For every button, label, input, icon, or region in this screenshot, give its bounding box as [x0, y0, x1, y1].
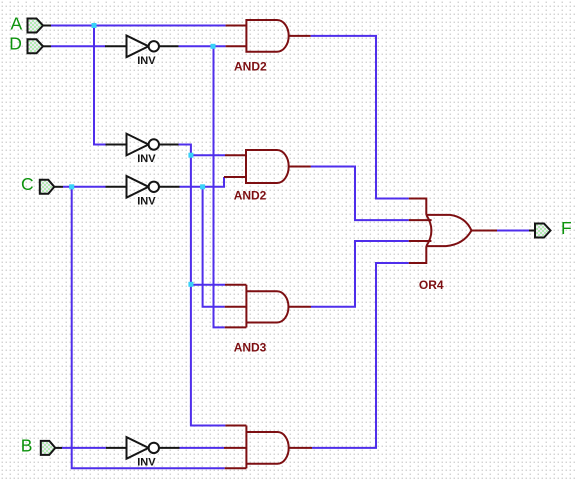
wire not-A branch to AND2 U2	[191, 154, 225, 156]
wire OR4 output to port F	[497, 230, 529, 232]
inverter INV3	[106, 176, 180, 207]
input port A	[11, 13, 52, 33]
wire not-D vertical to AND3	[214, 46, 225, 327]
or-gate OR4	[409, 199, 497, 292]
inverter INV1	[105, 36, 179, 67]
svg-text:AND2: AND2	[234, 60, 267, 74]
wire AND3 output to OR4	[311, 241, 409, 307]
svg-text:INV: INV	[137, 195, 156, 207]
node junction not-A 1	[188, 153, 193, 158]
wire not-C vertical to AND3	[203, 187, 225, 307]
svg-text:B: B	[21, 436, 33, 456]
input port D	[9, 34, 51, 54]
node junction C	[69, 184, 74, 189]
wire AND2 U2 output to OR4	[311, 167, 409, 221]
input port B wire to INV4	[62, 447, 106, 449]
wire net C vertical to AND3b	[72, 187, 225, 469]
inverter INV4	[106, 437, 180, 468]
svg-text:C: C	[21, 174, 34, 194]
wire INV4 output to AND3b	[180, 447, 225, 449]
wire INV3 output to AND2 U2	[180, 177, 225, 187]
node junction A	[92, 23, 97, 28]
inverter INV2	[106, 134, 179, 165]
svg-text:INV: INV	[137, 153, 156, 165]
wire net D from port to INV1	[51, 45, 106, 47]
svg-text:AND3: AND3	[234, 341, 267, 355]
and-gate AND2 U1	[226, 20, 311, 74]
svg-text:A: A	[11, 13, 23, 33]
input port B	[21, 436, 62, 456]
and-gate AND3	[225, 285, 311, 355]
wire net A horizontal	[51, 25, 226, 27]
output port F	[529, 218, 572, 238]
svg-text:AND2: AND2	[234, 188, 267, 202]
svg-text:F: F	[561, 218, 572, 238]
wire net C horizontal	[63, 186, 106, 188]
svg-text:INV: INV	[137, 456, 156, 468]
wire INV2 output vertical	[179, 145, 226, 426]
svg-text:OR4: OR4	[419, 278, 444, 292]
node junction not-C	[200, 184, 205, 189]
node junction not-A 2	[188, 282, 193, 287]
wire AND3b output to OR4	[312, 263, 409, 448]
and-gate AND3b bottom	[224, 426, 312, 469]
wire INV1 output to AND2 U1	[179, 45, 226, 47]
and-gate AND2 U2	[224, 150, 311, 202]
wire AND2 U1 output to OR4	[311, 36, 409, 199]
input port C	[21, 174, 63, 194]
wire net A vertical branch to INV2	[94, 26, 106, 145]
node junction not-D	[211, 44, 216, 49]
svg-text:D: D	[9, 34, 22, 54]
wire not-A branch to AND3	[191, 284, 225, 286]
svg-text:INV: INV	[137, 55, 156, 67]
